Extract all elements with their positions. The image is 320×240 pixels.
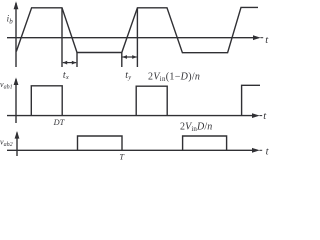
label vab2 [0, 138, 13, 149]
x-axis t (top) [7, 35, 263, 40]
svg-text:t: t [266, 147, 269, 158]
svg-text:2VinD/n: 2VinD/n [180, 121, 212, 133]
ty marker right [136, 8, 138, 67]
pulse 1 vab2 [78, 136, 123, 150]
ty double arrow [122, 55, 136, 59]
label ty [125, 70, 131, 81]
pulse 2 vab1 [136, 86, 167, 115]
y-axis ib [14, 1, 19, 67]
svg-text:T: T [119, 152, 125, 161]
svg-text:b: b [9, 17, 13, 25]
tx double arrow [63, 61, 77, 65]
x-axis t (middle) [7, 113, 262, 118]
svg-text:x: x [65, 74, 69, 81]
label tx [63, 70, 69, 81]
label vab1 [0, 80, 13, 91]
svg-text:y: y [127, 74, 131, 81]
svg-text:DT: DT [53, 118, 66, 127]
label ib [7, 14, 14, 26]
svg-text:ab1: ab1 [4, 85, 13, 91]
svg-text:ab2: ab2 [4, 142, 13, 148]
y-axis vab2 [15, 131, 20, 156]
x-axis t (bottom) [7, 148, 262, 153]
svg-text:2Vin(1−D)/n: 2Vin(1−D)/n [148, 71, 200, 83]
pulse 2 vab2 [183, 136, 227, 150]
tx marker right [76, 53, 78, 68]
tx marker left [61, 8, 63, 67]
y-axis vab1 [14, 77, 19, 123]
waveform ib [16, 7, 258, 52]
ty marker left [121, 53, 123, 68]
pulse 1 vab1 [31, 86, 62, 116]
svg-text:t: t [265, 35, 269, 46]
pulse 3 vab1 (partial) [242, 85, 260, 115]
svg-text:t: t [263, 111, 267, 122]
